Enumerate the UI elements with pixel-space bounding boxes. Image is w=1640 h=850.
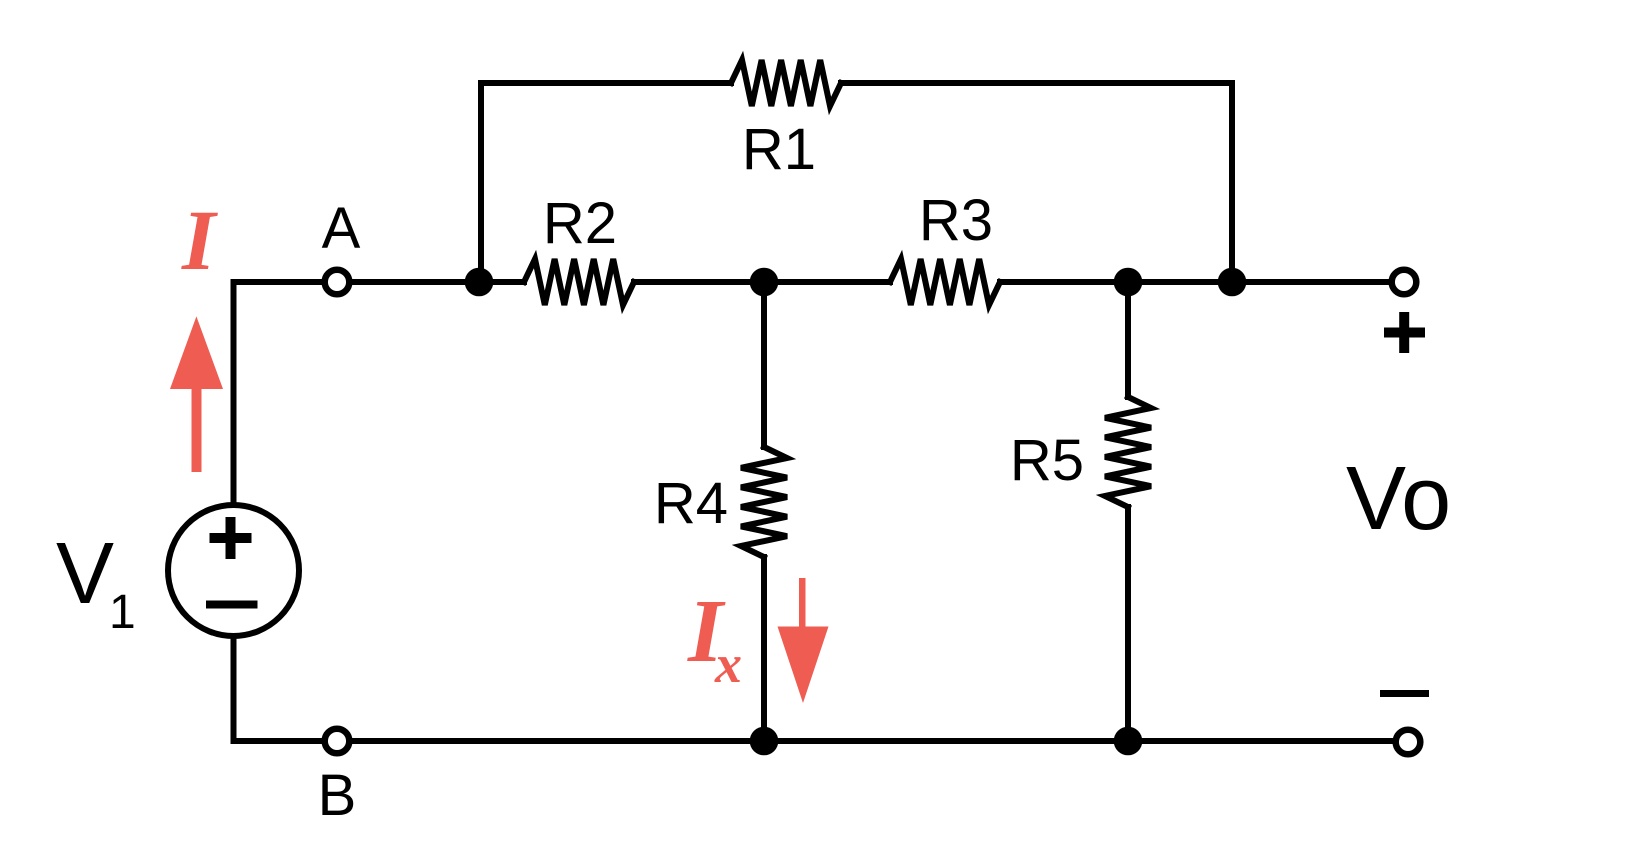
wire main line A-left <box>234 279 322 285</box>
wire left vertical (source top lead) <box>231 282 237 504</box>
svg-text:R1: R1 <box>742 117 816 182</box>
svg-text:V1: V1 <box>56 525 136 639</box>
junction at top of R5 <box>1114 268 1143 297</box>
wire bottom B-left <box>234 738 321 744</box>
junction at bottom of R5 <box>1114 727 1143 756</box>
node B <box>325 729 350 754</box>
svg-text:B: B <box>318 763 357 828</box>
current arrow I <box>170 316 223 472</box>
svg-text:A: A <box>322 196 361 261</box>
wire R3 to right terminal <box>1000 279 1388 285</box>
svg-text:R5: R5 <box>1010 428 1084 493</box>
wire R5 bottom lead <box>1125 507 1131 741</box>
resistor R4 <box>741 447 787 557</box>
wire R5 top lead <box>1125 282 1131 397</box>
resistor R2 <box>524 259 634 305</box>
svg-text:I: I <box>181 192 218 288</box>
svg-text:Vo: Vo <box>1346 449 1451 549</box>
svg-text:R3: R3 <box>919 188 993 253</box>
junction at R1 right leg <box>1218 268 1247 297</box>
plus mark at Vo top <box>1384 312 1425 353</box>
junction between R2 and R3 <box>750 268 779 297</box>
junction at top of R2 branch <box>465 268 494 297</box>
terminal Vo- <box>1396 730 1421 755</box>
junction at bottom of R4 <box>750 727 779 756</box>
resistor R1 <box>731 60 841 106</box>
current arrow Ix <box>778 578 829 703</box>
wire top branch up <box>481 83 731 282</box>
minus mark at Vo bottom <box>1380 690 1429 697</box>
svg-text:Ix: Ix <box>687 582 742 694</box>
resistor R3 <box>890 259 1000 305</box>
svg-text:R2: R2 <box>543 191 617 256</box>
wire top branch right <box>841 83 1232 282</box>
node A <box>325 270 350 295</box>
wire R4 bottom lead <box>761 557 767 741</box>
resistor R5 <box>1105 397 1151 507</box>
wire A to R2 <box>353 279 524 285</box>
terminal Vo+ <box>1392 270 1417 295</box>
wire bottom B to right terminal <box>353 738 1392 744</box>
wire R2 to R3 <box>634 279 890 285</box>
wire R4 top lead <box>761 282 767 447</box>
svg-text:R4: R4 <box>654 471 728 536</box>
voltage source V1 <box>168 505 299 636</box>
wire left bottom (source bottom lead) <box>231 636 237 741</box>
